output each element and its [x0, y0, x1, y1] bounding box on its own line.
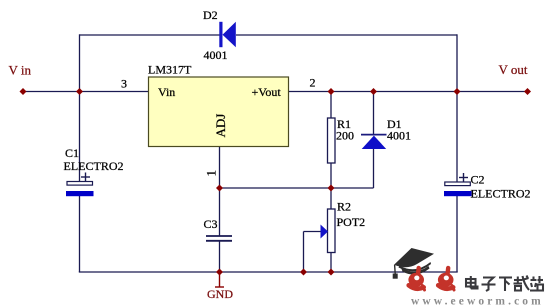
svg-text:R2: R2 — [337, 200, 351, 214]
svg-text:Vin: Vin — [158, 85, 175, 99]
svg-text:ELECTRO2: ELECTRO2 — [64, 159, 124, 173]
svg-text:D2: D2 — [203, 8, 218, 22]
svg-text:ELECTRO2: ELECTRO2 — [471, 187, 531, 201]
svg-text:LM317T: LM317T — [148, 63, 192, 77]
svg-text:POT2: POT2 — [337, 215, 366, 229]
svg-text:www.eeworm.com: www.eeworm.com — [411, 296, 544, 306]
svg-text:ADJ: ADJ — [213, 114, 228, 138]
svg-text:C3: C3 — [204, 217, 218, 231]
svg-text:GND: GND — [207, 287, 233, 301]
svg-text:1: 1 — [204, 170, 219, 177]
svg-text:200: 200 — [336, 129, 354, 143]
svg-text:C2: C2 — [471, 173, 485, 187]
svg-text:V out: V out — [499, 62, 528, 77]
svg-text:3: 3 — [121, 77, 127, 91]
svg-text:4001: 4001 — [387, 129, 411, 143]
svg-text:+Vout: +Vout — [252, 85, 282, 99]
svg-text:V in: V in — [9, 63, 32, 78]
svg-text:2: 2 — [310, 76, 316, 90]
svg-text:4001: 4001 — [204, 48, 228, 62]
svg-text:C1: C1 — [65, 146, 79, 160]
